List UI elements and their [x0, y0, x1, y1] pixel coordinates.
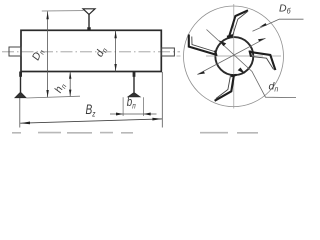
B_z dimension	[20, 72, 163, 128]
top knife	[83, 9, 95, 31]
vertical center line	[233, 4, 235, 109]
D_b diagonal dimension line	[197, 19, 303, 74]
cutter body	[21, 30, 161, 71]
center line (dash-dot)	[2, 51, 180, 53]
top knife	[227, 10, 248, 37]
bottom knife	[215, 75, 237, 101]
bottom knife-tip level line	[27, 96, 81, 98]
left knife	[189, 35, 217, 57]
d_p dimension line	[114, 31, 116, 72]
D_p dimension line (vertical)	[46, 11, 48, 97]
bottom-middle knife	[128, 72, 140, 97]
d_p diagonal dimension line	[207, 30, 297, 98]
bottom-left knife	[15, 72, 26, 98]
right knife	[250, 51, 276, 71]
h_p dimension line	[69, 72, 71, 97]
right shaft stub	[161, 48, 174, 56]
top reference line to knife tip level	[42, 10, 84, 12]
outer circle (cutting circle)	[184, 6, 284, 107]
inner circle (body)	[215, 37, 253, 75]
b_p dimension	[110, 97, 157, 116]
horizontal center line	[177, 55, 282, 57]
left shaft stub	[9, 47, 21, 56]
faint cut-off caption remnants at bottom edge	[12, 132, 258, 134]
